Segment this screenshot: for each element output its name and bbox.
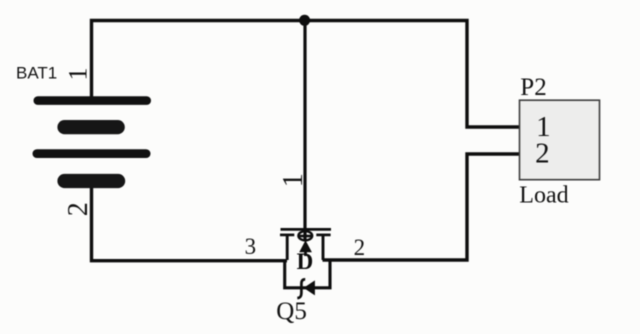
svg-text:D: D — [297, 249, 314, 274]
Q5 body-diode loop wire — [285, 259, 330, 288]
connector P2 body — [520, 100, 600, 180]
svg-text:1: 1 — [278, 173, 309, 187]
wire gate drop: top rail junction down to Q5 pin1 — [303, 21, 306, 242]
Q5 arrow stub — [304, 251, 307, 256]
Q5 body diode schottky cathode — [297, 279, 305, 298]
node junction on top rail — [299, 15, 310, 26]
wire net1: battery positive up, top rail, right drop to P2 pin1 — [92, 21, 520, 128]
svg-text:2: 2 — [63, 202, 94, 216]
svg-text:Q5: Q5 — [276, 298, 307, 325]
battery long plate 2 — [33, 149, 151, 158]
Q5 left contact stem — [286, 236, 289, 260]
Q5 left channel contact — [280, 234, 294, 237]
battery short plate 1 — [57, 120, 124, 134]
Q5 bulk circle — [298, 231, 312, 240]
Q5 bulk circle bar — [299, 235, 311, 238]
svg-text:2: 2 — [535, 137, 550, 169]
Q5 right channel contact — [316, 234, 330, 237]
wire net2: battery negative down, bottom rail to Q5 pin3 — [92, 186, 288, 261]
battery short plate bottom — [57, 174, 125, 188]
Q5 gate bar — [281, 228, 332, 231]
Q5 substrate arrow — [299, 240, 312, 252]
svg-text:P2: P2 — [520, 74, 546, 101]
battery long plate top — [34, 96, 152, 105]
svg-text:Load: Load — [519, 183, 568, 209]
battery BAT1 — [33, 96, 152, 188]
transistor Q5 — [280, 229, 331, 298]
svg-text:1: 1 — [64, 68, 93, 81]
Q5 right contact stem — [322, 236, 325, 260]
svg-text:BAT1: BAT1 — [16, 64, 57, 83]
svg-text:3: 3 — [245, 234, 257, 259]
svg-text:2: 2 — [354, 235, 366, 260]
Q5 body diode triangle — [304, 280, 315, 295]
wire net3: Q5 pin2 right, up to P2 pin2 — [323, 154, 520, 260]
